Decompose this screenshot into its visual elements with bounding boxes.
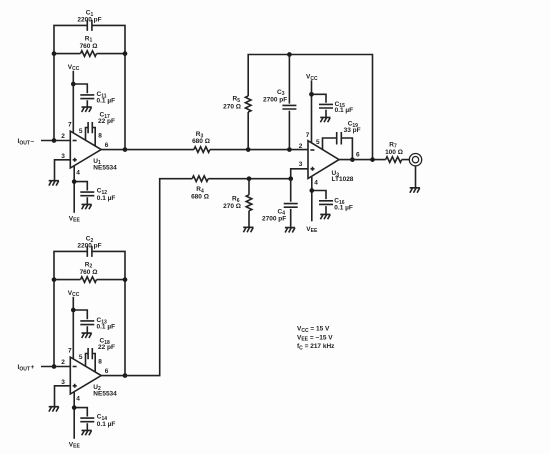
- svg-text:4: 4: [314, 179, 318, 186]
- svg-text:2: 2: [299, 143, 303, 150]
- svg-text:2700 pF: 2700 pF: [263, 96, 287, 103]
- svg-text:fC = 217 kHz: fC = 217 kHz: [297, 343, 335, 351]
- svg-text:IOUT–: IOUT–: [18, 138, 35, 146]
- svg-text:0.1 µF: 0.1 µF: [335, 107, 354, 114]
- svg-text:270 Ω: 270 Ω: [223, 203, 241, 210]
- svg-text:33 pF: 33 pF: [344, 127, 361, 134]
- svg-text:VEE: VEE: [306, 226, 318, 234]
- svg-text:VCC = 15 V: VCC = 15 V: [297, 326, 330, 334]
- svg-text:100 Ω: 100 Ω: [385, 149, 403, 156]
- svg-text:IOUT+: IOUT+: [18, 364, 35, 372]
- svg-text:270 Ω: 270 Ω: [223, 104, 241, 111]
- svg-text:VCC: VCC: [306, 74, 318, 82]
- svg-text:VEE = −15 V: VEE = −15 V: [297, 334, 333, 342]
- svg-text:5: 5: [316, 139, 320, 146]
- svg-text:2700 pF: 2700 pF: [262, 216, 286, 223]
- svg-text:7: 7: [306, 132, 310, 139]
- svg-text:680 Ω: 680 Ω: [192, 138, 210, 145]
- svg-text:LT1028: LT1028: [332, 176, 354, 183]
- svg-text:680 Ω: 680 Ω: [191, 193, 209, 200]
- svg-text:3: 3: [299, 161, 303, 168]
- svg-text:6: 6: [356, 151, 360, 158]
- svg-text:0.1 µF: 0.1 µF: [334, 205, 353, 212]
